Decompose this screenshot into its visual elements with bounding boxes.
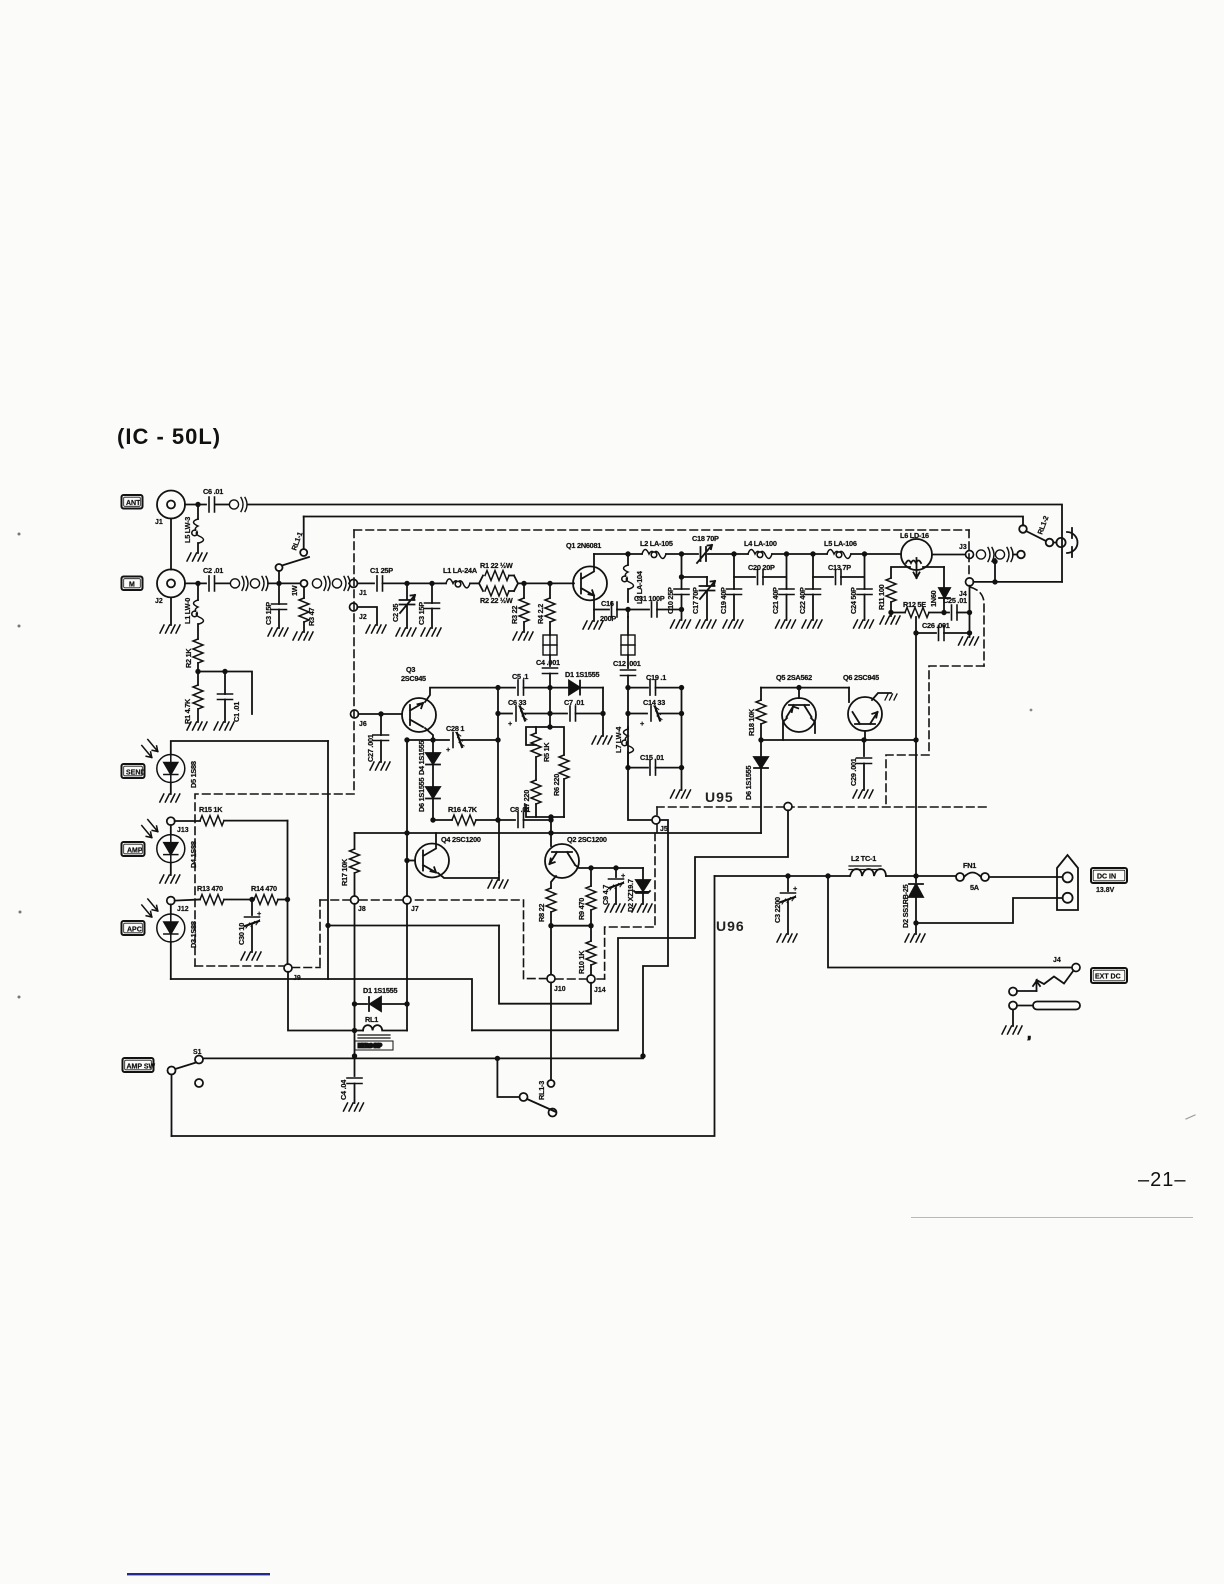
wire bbox=[432, 582, 446, 584]
svg-text:R5 1K: R5 1K bbox=[542, 742, 551, 762]
ground bbox=[187, 722, 207, 730]
wire to ground bbox=[224, 700, 226, 723]
svg-text:SEND: SEND bbox=[126, 769, 145, 776]
svg-text:AMP SW: AMP SW bbox=[127, 1063, 156, 1070]
terminal circle 1W bbox=[301, 580, 308, 587]
capacitor C8 .01 bbox=[518, 813, 524, 828]
connector J14 bbox=[587, 975, 595, 983]
capacitor C14 33 electrolytic bbox=[628, 713, 647, 715]
inductor L5 LA-106 bbox=[827, 550, 851, 559]
svg-text:M: M bbox=[129, 581, 135, 588]
node bbox=[625, 607, 630, 612]
svg-text:L2 TC-1: L2 TC-1 bbox=[851, 854, 876, 863]
wire send led bottom bbox=[170, 783, 172, 795]
connector J5 bbox=[652, 816, 660, 824]
capacitor C6 .01 bbox=[209, 497, 215, 512]
ground bbox=[160, 875, 180, 883]
coax bushing bbox=[229, 498, 247, 512]
resistor R3 22 bbox=[523, 583, 525, 598]
wire J4 row bbox=[973, 581, 1062, 583]
capacitor C16 200P bbox=[594, 609, 609, 611]
svg-text:ANT: ANT bbox=[126, 500, 141, 507]
connector J6 bbox=[351, 710, 359, 718]
capacitor C9 4.7 electrolytic bbox=[615, 868, 617, 877]
footer blue rule bbox=[127, 1573, 270, 1575]
wire bbox=[708, 553, 748, 555]
wire bbox=[215, 582, 230, 584]
wire to ground bbox=[431, 609, 433, 629]
svg-text:D6 1S1555: D6 1S1555 bbox=[417, 778, 426, 812]
connector J2 pin bbox=[350, 603, 358, 611]
wire bbox=[772, 553, 827, 555]
resistor R18 10K bbox=[760, 688, 762, 700]
SEND label box bbox=[122, 764, 146, 778]
wire sleeve ground bbox=[1012, 1010, 1014, 1027]
dashed led box right bbox=[319, 900, 321, 966]
svg-text:J10: J10 bbox=[554, 986, 566, 993]
wire led feed riser x287.5 bbox=[287, 821, 289, 965]
wire Q6 base top bbox=[848, 688, 850, 702]
svg-text:+: + bbox=[508, 719, 512, 728]
svg-text:D2 SS1RB-25: D2 SS1RB-25 bbox=[901, 884, 910, 928]
right ladder rail bbox=[681, 688, 683, 790]
svg-text:J5: J5 bbox=[660, 826, 668, 833]
node bbox=[195, 581, 200, 586]
svg-text:D4 1S88: D4 1S88 bbox=[189, 841, 198, 868]
dashed U95 step y667 bbox=[886, 666, 984, 806]
svg-text:L5 LA-106: L5 LA-106 bbox=[824, 539, 857, 548]
node bbox=[784, 551, 789, 556]
capacitor C24 50P bbox=[857, 589, 872, 595]
svg-text:L2 LA-105: L2 LA-105 bbox=[640, 539, 673, 548]
capacitor C5 15P bbox=[431, 583, 433, 603]
resistor R11 100 bbox=[891, 567, 910, 578]
svg-text:C14 33: C14 33 bbox=[643, 698, 665, 707]
wire x407 lower bbox=[406, 904, 408, 1004]
wire J9 down to relay row bbox=[288, 972, 356, 1031]
svg-text:J2: J2 bbox=[359, 614, 367, 621]
wire Q5 bottom bbox=[783, 718, 815, 740]
transistor Q5 2SA562 bbox=[776, 673, 816, 732]
svg-text:C13 7P: C13 7P bbox=[828, 563, 851, 572]
capacitor C5 .1 bbox=[498, 687, 515, 689]
node bbox=[731, 551, 736, 556]
wire L5 to ground bbox=[197, 543, 199, 553]
svg-text:C4 .04: C4 .04 bbox=[339, 1079, 348, 1100]
node bbox=[495, 737, 500, 742]
ground bbox=[671, 620, 691, 628]
wire ext dc feed bbox=[828, 876, 1072, 968]
ground bbox=[160, 794, 180, 802]
connector J1 bbox=[157, 491, 185, 519]
wire Q3 emitter bbox=[425, 728, 433, 740]
svg-text:J8: J8 bbox=[358, 906, 366, 913]
transistor Q2 2SC1200 bbox=[545, 835, 607, 878]
connector J4 ext bbox=[1072, 964, 1080, 972]
wire Q4 base bbox=[407, 860, 415, 862]
svg-text:C1 .01: C1 .01 bbox=[232, 702, 241, 722]
dashed led box bottom bbox=[195, 966, 320, 968]
capacitor C28 1 electrolytic bbox=[433, 739, 449, 741]
svg-text:D5 1S88: D5 1S88 bbox=[189, 761, 198, 788]
AMP SW label box bbox=[123, 1058, 156, 1072]
svg-text:Q1 2N6081: Q1 2N6081 bbox=[566, 541, 601, 550]
svg-text:R3 22: R3 22 bbox=[510, 606, 519, 624]
node bbox=[679, 551, 684, 556]
svg-text:J9: J9 bbox=[293, 975, 301, 982]
svg-text:J13: J13 bbox=[177, 827, 189, 834]
wire send led top bbox=[171, 741, 328, 755]
resistor R15 1K bbox=[175, 820, 200, 822]
ground bbox=[605, 904, 625, 912]
svg-text:R2 22 ½W: R2 22 ½W bbox=[480, 596, 513, 605]
dashed U95 top bbox=[354, 529, 969, 531]
svg-text:R1 22 ½W: R1 22 ½W bbox=[480, 561, 513, 570]
node bbox=[547, 685, 552, 690]
svg-text:J4: J4 bbox=[1053, 957, 1061, 964]
svg-text:C24 50P: C24 50P bbox=[849, 587, 858, 614]
svg-text:R10 1K: R10 1K bbox=[577, 950, 586, 974]
connector J2 bbox=[157, 569, 185, 597]
ground bbox=[592, 736, 612, 744]
capacitor C7 .01 bbox=[550, 713, 567, 715]
capacitor C4 .001 bbox=[543, 668, 558, 674]
wire bias bus y833 bbox=[355, 832, 762, 834]
trimmer C18 70P bbox=[697, 545, 712, 563]
connector J10 bbox=[547, 975, 555, 983]
inductor L5 LW-3 bbox=[192, 519, 204, 543]
svg-text:+: + bbox=[446, 745, 450, 754]
margin speck 1 bbox=[18, 533, 21, 536]
wire to R16 row bbox=[432, 799, 434, 821]
capacitor C10 25P bbox=[681, 554, 683, 589]
resistor R5 1K bbox=[535, 727, 537, 733]
resistor R1 4.7K bbox=[197, 672, 199, 686]
svg-text:C8 .01: C8 .01 bbox=[510, 805, 530, 814]
wire to node bbox=[268, 582, 300, 584]
wire relay riser x354.5 bbox=[354, 904, 356, 1056]
capacitor C29 .001 bbox=[863, 740, 865, 756]
svg-text:J1: J1 bbox=[359, 590, 367, 597]
resistor R7 220 bbox=[535, 757, 537, 780]
svg-text:MTRG4ZP: MTRG4ZP bbox=[358, 1044, 383, 1050]
wire J10 drop bbox=[550, 926, 552, 975]
svg-text:J6: J6 bbox=[359, 721, 367, 728]
dashed Q2 box bottom bbox=[524, 978, 605, 980]
capacitor C1 25P bbox=[357, 582, 374, 584]
dashed Q2 box right bbox=[605, 833, 655, 979]
wire send bus y925.5 bbox=[328, 925, 499, 927]
svg-text:R13 470: R13 470 bbox=[197, 884, 223, 893]
wire bottom return bbox=[172, 876, 715, 1136]
wire R8/R9 row bbox=[551, 925, 591, 927]
svg-text:C9 4.7: C9 4.7 bbox=[601, 885, 610, 905]
wire amp led top bbox=[170, 825, 172, 835]
connector J13 bbox=[167, 817, 175, 825]
ground bbox=[905, 934, 925, 942]
ground bbox=[583, 621, 603, 629]
ground bbox=[854, 620, 874, 628]
EXT DC label box bbox=[1091, 968, 1127, 983]
relay contact RL1-2 bbox=[1019, 525, 1027, 533]
svg-text:L5 LW-3: L5 LW-3 bbox=[183, 517, 192, 543]
wire amp sw line bbox=[203, 1057, 643, 1059]
node bbox=[404, 581, 409, 586]
node send/apc riser bbox=[325, 923, 330, 928]
capacitor C30 10 electrolytic bbox=[251, 900, 253, 916]
svg-text:C2 35: C2 35 bbox=[391, 604, 400, 622]
wire R16 right drop bbox=[498, 820, 500, 872]
LED D3 1S88 apc bbox=[142, 899, 185, 942]
svg-text:C12 .001: C12 .001 bbox=[613, 659, 641, 668]
resistor R6 220 bbox=[559, 755, 569, 779]
svg-text:+: + bbox=[640, 719, 644, 728]
wire Q1 line down through bead : already bbox=[627, 610, 629, 618]
svg-text:D1 1S1555: D1 1S1555 bbox=[565, 670, 599, 679]
svg-text:R17 10K: R17 10K bbox=[340, 858, 349, 886]
wire to DC plug bbox=[989, 876, 1062, 878]
svg-text:R3 47: R3 47 bbox=[307, 608, 316, 626]
wire bbox=[886, 875, 956, 877]
ferrite bead 2 bbox=[621, 635, 635, 655]
svg-text:Q3: Q3 bbox=[406, 665, 415, 674]
node bbox=[222, 669, 227, 674]
ground bbox=[421, 628, 441, 636]
svg-text:C17 70P: C17 70P bbox=[691, 587, 700, 614]
capacitor C4 .04 bbox=[354, 1056, 356, 1076]
ext jack sleeve/plug bbox=[1009, 1002, 1017, 1010]
wire J11 feed path bbox=[472, 810, 788, 1030]
svg-text:13.8V: 13.8V bbox=[1096, 887, 1115, 894]
zener D2 XZ19.7 bbox=[642, 868, 644, 879]
svg-text:R6 220: R6 220 bbox=[552, 774, 561, 796]
DC IN plug bbox=[1057, 855, 1078, 910]
svg-text:D1 1S1555: D1 1S1555 bbox=[363, 986, 397, 995]
dashed led box left column bbox=[195, 794, 354, 966]
connector J3 bbox=[966, 551, 974, 559]
svg-text:C16: C16 bbox=[601, 599, 614, 608]
svg-text:C25 .01: C25 .01 bbox=[943, 596, 967, 605]
svg-text:EXT DC: EXT DC bbox=[1095, 974, 1121, 981]
wire bbox=[383, 582, 433, 584]
APC label box bbox=[122, 921, 145, 935]
wire bbox=[518, 582, 574, 584]
svg-text:C1 25P: C1 25P bbox=[370, 566, 393, 575]
svg-text:Q6 2SC945: Q6 2SC945 bbox=[843, 673, 879, 682]
margin speck 3 bbox=[19, 911, 22, 914]
svg-text:L7 LW-4: L7 LW-4 bbox=[614, 726, 623, 753]
ground bbox=[776, 620, 796, 628]
ground bbox=[723, 620, 743, 628]
wire Q2 emitter right bbox=[575, 865, 643, 868]
ground bbox=[696, 620, 716, 628]
wire to J1 pin bbox=[349, 582, 350, 584]
resistor R13 470 bbox=[175, 900, 200, 901]
transistor Q6 2SC945 bbox=[843, 673, 882, 731]
wire DC minus return bbox=[916, 898, 1062, 923]
svg-text:C31 100P: C31 100P bbox=[634, 594, 665, 603]
ground bbox=[959, 637, 979, 645]
wire S1 down bbox=[171, 1075, 173, 1137]
wire apc led top bbox=[170, 904, 172, 914]
svg-text:,: , bbox=[1028, 1030, 1031, 1040]
terminal circle bbox=[1013, 554, 1017, 556]
svg-text:+: + bbox=[793, 884, 797, 893]
collector rail wire bbox=[594, 553, 642, 555]
wire amp led bottom bbox=[170, 863, 172, 875]
wire u95 top row bbox=[761, 687, 849, 689]
inductor L3 LA-104 bbox=[627, 554, 629, 565]
bias network R5 R6 R7 bbox=[547, 724, 552, 729]
capacitor C20 20P bbox=[734, 576, 755, 578]
wire B+ drop to rail bbox=[915, 740, 917, 876]
wire to mixer node bbox=[549, 674, 551, 688]
svg-text:R15 1K: R15 1K bbox=[199, 805, 223, 814]
ground bbox=[344, 1103, 364, 1111]
resistor R2 1K bbox=[197, 624, 199, 639]
transistor Q1 2N6081 bbox=[566, 541, 607, 600]
wire Q2 in bbox=[550, 820, 552, 846]
connector J7 bbox=[403, 896, 411, 904]
svg-text:R11 100: R11 100 bbox=[877, 584, 886, 610]
dashed U95 left bbox=[353, 530, 355, 794]
svg-text:C30 10: C30 10 bbox=[237, 923, 246, 945]
wire bbox=[549, 655, 551, 666]
margin speck 2 bbox=[18, 625, 21, 628]
diode D2 SS1RB-25 bbox=[915, 876, 917, 882]
wire J6 to Q3 base bbox=[358, 713, 402, 715]
diode D6 1S1555 u95 bbox=[754, 757, 768, 768]
relay contact RL1-3 bbox=[497, 1058, 519, 1097]
svg-text:–21–: –21– bbox=[1138, 1169, 1187, 1191]
trimmer C17 70P bbox=[682, 576, 708, 578]
svg-text:C3 2200: C3 2200 bbox=[773, 897, 782, 923]
node bbox=[547, 581, 552, 586]
wire to ground bbox=[406, 605, 408, 628]
svg-text:C2 .01: C2 .01 bbox=[203, 566, 223, 575]
ground bbox=[513, 632, 533, 640]
AMP label box bbox=[122, 842, 145, 856]
inductor L1 LA-24A bbox=[446, 579, 470, 588]
fuse FN1 bbox=[956, 873, 964, 881]
wire J1 node down bbox=[197, 505, 199, 520]
ground bbox=[214, 722, 234, 730]
wire J4 down bbox=[969, 586, 971, 637]
ext jack tip spring bbox=[1037, 971, 1074, 985]
svg-text:RL1: RL1 bbox=[365, 1015, 378, 1024]
svg-text:J12: J12 bbox=[177, 906, 189, 913]
wire Q3 collector bbox=[425, 688, 498, 702]
ground bbox=[187, 553, 207, 561]
ground bbox=[802, 620, 822, 628]
capacitor C3 2200 electrolytic bbox=[787, 876, 789, 891]
dashed Q2 box left bbox=[523, 900, 525, 979]
svg-text:L1 LW-0: L1 LW-0 bbox=[183, 598, 192, 624]
resistor R14 470 bbox=[254, 895, 278, 905]
wire bbox=[432, 765, 434, 788]
wire ladder to J5 bbox=[628, 768, 652, 820]
svg-text:DC IN: DC IN bbox=[1097, 873, 1116, 880]
resistors R1 22 / R2 22 parallel bbox=[479, 576, 518, 592]
capacitor C3 15P bbox=[278, 583, 280, 604]
resistor R3 47 bbox=[303, 587, 305, 598]
wire Q1 collector up bbox=[593, 554, 595, 570]
wire J2 to node bbox=[185, 582, 206, 584]
LED D5 1S88 send bbox=[142, 740, 185, 783]
resistor R17 10K bbox=[354, 833, 356, 849]
ground bbox=[293, 632, 313, 640]
svg-text:C15 .01: C15 .01 bbox=[640, 753, 664, 762]
wire B+ drop x916 bbox=[915, 617, 917, 740]
svg-text:APC: APC bbox=[127, 926, 142, 933]
svg-text:J1: J1 bbox=[155, 519, 163, 526]
dashed led bus y900 bbox=[320, 899, 519, 901]
wire J5 out path bbox=[643, 820, 668, 1056]
resistor R16 4.7K bbox=[430, 817, 435, 822]
svg-text:AMP: AMP bbox=[127, 847, 143, 854]
svg-text:C4 .001: C4 .001 bbox=[536, 658, 560, 667]
svg-text:J7: J7 bbox=[411, 906, 419, 913]
inductor L2 LA-105 bbox=[642, 550, 666, 559]
svg-text:1N60: 1N60 bbox=[929, 590, 938, 607]
svg-text:C19 40P: C19 40P bbox=[719, 587, 728, 614]
inductor L6 LD-16 bbox=[900, 531, 932, 578]
node under J1 bbox=[195, 502, 200, 507]
svg-text:C20 20P: C20 20P bbox=[748, 563, 775, 572]
capacitor C19 40P bbox=[733, 554, 735, 589]
ground bbox=[396, 628, 416, 636]
wire J1 to node bbox=[185, 504, 206, 506]
ground bbox=[671, 790, 691, 798]
svg-text:C27 .001: C27 .001 bbox=[366, 734, 375, 762]
ground bbox=[777, 934, 797, 942]
svg-text:200P: 200P bbox=[600, 614, 616, 623]
svg-text:C6 .01: C6 .01 bbox=[203, 487, 223, 496]
ANT label box bbox=[122, 495, 143, 509]
ground bbox=[890, 613, 892, 617]
svg-text:C28 1: C28 1 bbox=[446, 724, 464, 733]
margin speck 4 bbox=[18, 996, 21, 999]
svg-text:2SC945: 2SC945 bbox=[401, 674, 426, 683]
wire send riser x328 bbox=[327, 741, 329, 979]
relay coil RL1 bbox=[355, 1030, 364, 1032]
capacitor C31 100P bbox=[628, 609, 649, 611]
svg-text:U96: U96 bbox=[716, 918, 745, 934]
svg-text:(IC - 50L): (IC - 50L) bbox=[117, 424, 221, 449]
wire coax shield down to J4 line bbox=[994, 559, 996, 582]
wire J2 pin to ground bbox=[357, 607, 377, 625]
wire Q2 bottom bbox=[551, 876, 556, 888]
resistor R10 1K bbox=[590, 926, 592, 941]
wire x407 riser bbox=[407, 740, 433, 896]
wire row to corner bbox=[198, 672, 252, 715]
svg-text:5A: 5A bbox=[970, 883, 980, 892]
faint separator line bbox=[911, 1217, 1193, 1218]
capacitor C22 40P bbox=[812, 554, 814, 589]
diode 1N60 bbox=[923, 566, 944, 568]
wire to R1/R2 bbox=[470, 582, 479, 584]
svg-text:J14: J14 bbox=[594, 987, 606, 994]
wire to bead bbox=[549, 622, 551, 635]
capacitor C19 .1 bbox=[628, 687, 648, 689]
resistor R12 5E bbox=[891, 612, 905, 614]
wire mixer out / ground bbox=[602, 688, 604, 736]
inductor L1 LW-0 bbox=[197, 583, 199, 600]
svg-text:R12 5E: R12 5E bbox=[903, 600, 926, 609]
svg-text:Q5 2SA562: Q5 2SA562 bbox=[776, 673, 812, 682]
wire Q5/Q6 emitter rail y740 bbox=[761, 739, 916, 741]
wire R2 to row bbox=[197, 663, 199, 672]
